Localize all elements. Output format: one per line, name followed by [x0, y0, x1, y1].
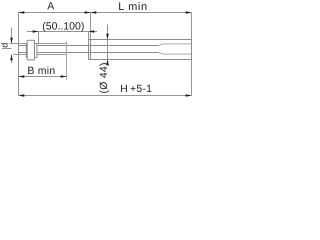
- rod thread crest bottom (thin): [19, 54, 67, 56]
- extension line above nut right face (x=38.5): [38, 32, 40, 44]
- hex nut right facet: [34, 44, 37, 58]
- rod core top: [19, 45, 159, 47]
- arrow A left: [19, 11, 25, 14]
- extension line B right through rod (x=66.5): [66, 42, 68, 81]
- extension line left at x=18.5 (A/B/H datum): [18, 13, 20, 96]
- dimension d extension line top (y=43.5): [10, 43, 19, 45]
- arrow L min left: [91, 11, 97, 14]
- dimension line B min (y=76.5): [19, 76, 67, 78]
- dimension line H (y=95.5): [19, 95, 192, 97]
- dimension d extension line bottom (y=54.5): [14, 54, 19, 56]
- rod left end face: [18, 44, 20, 55]
- arrow B min right: [61, 75, 67, 78]
- arrow d top, outside pointing down: [10, 38, 13, 44]
- arrow H right: [186, 94, 192, 97]
- extension line above tube left face (x=88.5): [88, 32, 90, 40]
- arrow B min left: [19, 75, 25, 78]
- rod inner-end taper bottom: [158, 53, 191, 55]
- svg-text:L min: L min: [118, 1, 148, 13]
- svg-text:B min: B min: [27, 65, 55, 77]
- hex nut middle facet: [27, 40, 34, 60]
- hex nut left facet: [25, 44, 28, 58]
- leader line dia44 through tube and below: [107, 40, 109, 63]
- arrow (50..100) right, outside pointing left: [89, 30, 95, 33]
- rod inner-end taper top: [158, 44, 191, 46]
- dimension d vertical line above: [11, 28, 13, 44]
- dimension line L min (y=12.5): [91, 12, 192, 14]
- tube outer top: [89, 39, 192, 41]
- extension line mid at x=90.5 (A/L boundary above tube face): [90, 13, 92, 40]
- rod core bottom: [19, 52, 159, 54]
- arrow (50..100) left, outside pointing right: [33, 30, 39, 33]
- dimension d vertical line below: [11, 55, 13, 64]
- dimension d label shelf: [2, 48, 12, 50]
- extension line right at x=191.5 (L/H datum, also tube end face): [191, 13, 193, 96]
- svg-text:(50..100): (50..100): [42, 21, 84, 33]
- arrow H left: [19, 94, 25, 97]
- svg-text:H+5-1: H+5-1: [120, 83, 152, 95]
- dimension line (50..100) with outside stubs (y=31.5): [27, 31, 97, 33]
- tube right end face: [191, 40, 193, 60]
- svg-text:A: A: [47, 1, 54, 13]
- arrow d bottom, outside pointing up: [10, 55, 13, 61]
- dimension line A (y=12.5): [19, 12, 91, 14]
- arrow A right: [85, 11, 91, 14]
- tube outer bottom: [89, 59, 192, 61]
- tube left face line 1: [88, 40, 90, 60]
- tube left face line 2: [90, 40, 92, 60]
- arrow dia44 top, outside pointing down: [106, 34, 109, 40]
- arrow L min right: [186, 11, 192, 14]
- svg-text:d: d: [0, 43, 10, 48]
- rod thread crest top (thin): [19, 43, 67, 45]
- arrow dia44 bottom, outside pointing up: [106, 60, 109, 66]
- svg-text:(Ø 44): (Ø 44): [98, 62, 110, 93]
- leader line dia44 above tube: [107, 25, 109, 40]
